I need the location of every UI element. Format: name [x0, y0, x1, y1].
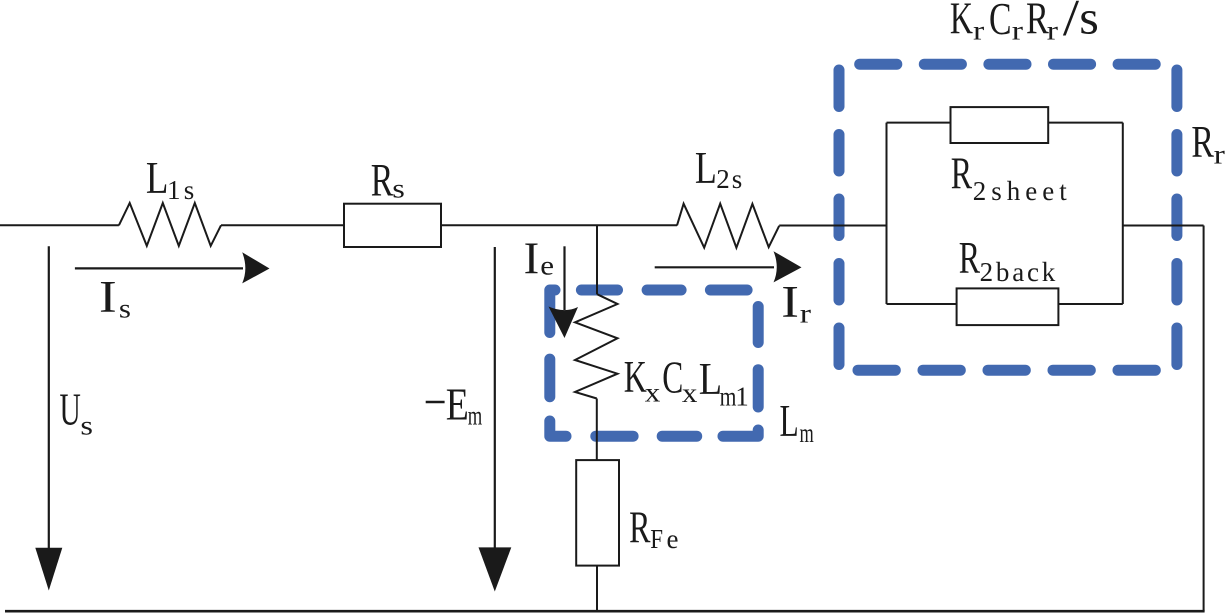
svg-text:R: R — [371, 154, 394, 206]
wire bottom rail — [5, 610, 1205, 613]
svg-text:L: L — [780, 397, 799, 447]
label KrCrRr/s — [950, 0, 1099, 46]
svg-text:L: L — [146, 153, 169, 203]
svg-text:L: L — [695, 143, 717, 193]
svg-text:m: m — [468, 401, 482, 431]
wire rotor block to right corner — [1123, 225, 1204, 227]
voltage arrow Us — [35, 246, 62, 590]
rotor parallel block bottom branch wire — [887, 303, 1123, 305]
label KxCxLm1 — [624, 353, 749, 412]
resistor R2back — [957, 288, 1059, 325]
current arrow Ie — [549, 246, 579, 338]
wire L2s to rotor block — [779, 225, 886, 227]
label Lm — [780, 397, 814, 448]
inductor L1s — [119, 203, 221, 246]
svg-text:x: x — [645, 378, 661, 408]
svg-text:E: E — [446, 379, 469, 429]
svg-text:2: 2 — [716, 164, 730, 194]
wire RFe to bottom rail — [596, 566, 598, 612]
label Is — [99, 272, 131, 324]
svg-text:I: I — [524, 233, 540, 283]
svg-text:R: R — [951, 149, 972, 199]
rotor parallel block top branch wire — [887, 122, 1123, 124]
label Rr — [1191, 118, 1224, 170]
svg-text:1: 1 — [167, 175, 181, 205]
label L2s — [695, 143, 742, 194]
svg-text:s: s — [392, 174, 405, 204]
label R2sheet — [951, 149, 1072, 206]
svg-text:1: 1 — [735, 381, 749, 411]
svg-text:K: K — [624, 353, 647, 403]
wire right vertical return — [1203, 226, 1205, 612]
svg-text:/: / — [1063, 0, 1080, 46]
label Rs — [371, 154, 405, 206]
svg-text:r: r — [1047, 16, 1058, 46]
svg-text:r: r — [800, 298, 811, 328]
svg-text:R: R — [1191, 118, 1214, 168]
label -Em — [426, 379, 483, 431]
label RFe — [629, 503, 678, 554]
svg-text:s: s — [80, 411, 93, 441]
resistor R2sheet — [951, 107, 1049, 143]
svg-text:x: x — [682, 379, 698, 409]
svg-text:2back: 2back — [980, 257, 1058, 287]
svg-text:s: s — [1079, 0, 1099, 44]
svg-text:e: e — [540, 252, 554, 282]
svg-text:F: F — [650, 525, 663, 554]
svg-text:R: R — [959, 234, 980, 284]
current arrow Is — [75, 252, 270, 283]
svg-text:m: m — [720, 382, 737, 412]
label L1s — [146, 153, 194, 205]
wire L1s to Rs — [221, 224, 344, 226]
label Ie — [524, 233, 554, 283]
svg-text:s: s — [119, 294, 131, 324]
node junction wire down from top wire — [596, 225, 598, 294]
resistor RFe — [576, 460, 619, 565]
svg-text:L: L — [699, 355, 722, 405]
wire top-left segment — [0, 224, 119, 226]
dashed box KrCrRr/s (rotor) — [839, 64, 1177, 370]
svg-text:r: r — [1012, 16, 1023, 46]
label Ir — [781, 277, 811, 329]
svg-text:C: C — [662, 353, 683, 403]
wire zigzag to RFe — [596, 399, 598, 461]
svg-text:e: e — [667, 524, 679, 554]
dashed box Lm (magnetizing branch) — [550, 290, 758, 436]
svg-text:I: I — [781, 277, 799, 327]
svg-text:C: C — [989, 0, 1012, 44]
svg-text:m: m — [800, 417, 814, 447]
svg-text:s: s — [184, 175, 195, 205]
wire Rs to L2s (through node at x=597) — [441, 224, 677, 226]
label R2back — [959, 234, 1058, 287]
svg-text:r: r — [1214, 140, 1225, 170]
svg-text:U: U — [60, 386, 81, 436]
inductor KxCxLm1 (vertical zigzag) — [575, 294, 618, 398]
rotor parallel block right vertical wire — [1122, 123, 1124, 304]
svg-text:R: R — [1026, 0, 1049, 44]
inductor L2s — [677, 204, 779, 248]
voltage arrow -Em — [479, 247, 512, 592]
label Us — [60, 386, 94, 441]
rotor parallel block left vertical wire — [886, 123, 888, 304]
svg-text:2sheet: 2sheet — [973, 176, 1072, 206]
svg-text:s: s — [732, 164, 743, 194]
svg-text:I: I — [99, 272, 117, 322]
current arrow Ir — [655, 251, 802, 282]
svg-text:r: r — [973, 16, 984, 46]
resistor Rs — [344, 204, 441, 247]
svg-text:K: K — [950, 0, 973, 44]
svg-text:R: R — [629, 503, 650, 553]
